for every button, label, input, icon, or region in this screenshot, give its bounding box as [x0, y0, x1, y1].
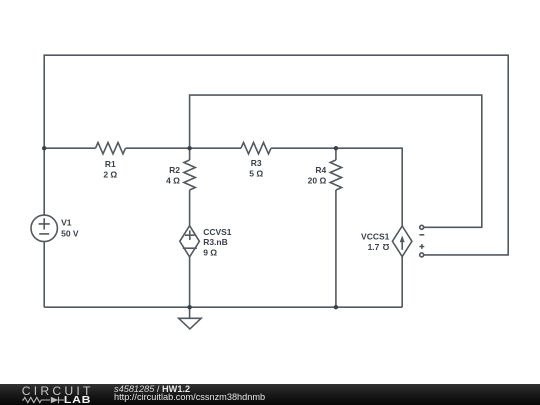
wire R2 branch: node B down to R2 [189, 148, 191, 160]
svg-text:1.7: 1.7 [368, 242, 380, 252]
wire CCVS1 bottom to bottom rail [189, 257, 191, 307]
voltage source V1 [31, 215, 57, 241]
terminal plus sign [419, 244, 424, 249]
CCVS U1 (CCVS1 diamond) [180, 226, 200, 257]
wire VCCS1 bottom to bottom rail corner [401, 257, 403, 308]
resistor R4 [330, 160, 341, 190]
wire R2 bottom to CCVS1 top [189, 190, 191, 226]
ground node junction dot [187, 305, 191, 309]
svg-text:LAB: LAB [64, 395, 91, 405]
svg-text:50 V: 50 V [61, 229, 79, 239]
wire R3 to node C and onward to VCCS corner [271, 148, 402, 226]
ground [179, 307, 201, 329]
CircuitLab logo [0, 384, 100, 405]
VCCS U2 (VCCS1 diamond) [392, 226, 412, 257]
wire R4 bottom to bottom rail [335, 190, 337, 307]
R4 bottom junction dot [334, 305, 338, 309]
resistor R1 [96, 143, 126, 154]
VCCS1 arrow head [400, 235, 405, 242]
svg-text:R2: R2 [169, 165, 180, 175]
svg-text:4 Ω: 4 Ω [166, 176, 180, 186]
footer bar [0, 384, 540, 405]
svg-text:9 Ω: 9 Ω [203, 247, 217, 257]
VCCS1 sense terminal top [420, 225, 424, 229]
svg-text:R4: R4 [315, 165, 326, 175]
wire node C down to R4 [335, 148, 337, 160]
wire outer loop top: left rail up, across top, down right side to bottom terminal [44, 55, 508, 255]
svg-text:V1: V1 [61, 217, 72, 227]
svg-text:R3.nB: R3.nB [203, 237, 228, 247]
resistor R3 [241, 143, 271, 154]
wire R1 to node B [126, 147, 190, 149]
VCCS1 sense terminal bottom [420, 253, 424, 257]
svg-text:Ω: Ω [382, 242, 389, 252]
svg-text:2 Ω: 2 Ω [103, 169, 117, 179]
node B junction dot [187, 146, 191, 150]
wire node B to R3 [190, 147, 241, 149]
wire V1 bottom to bottom rail [43, 242, 45, 308]
wire node A to R1 [44, 147, 95, 149]
svg-text:VCCS1: VCCS1 [361, 231, 390, 241]
svg-text:CCVS1: CCVS1 [203, 227, 232, 237]
svg-text:20 Ω: 20 Ω [308, 176, 327, 186]
wire left rail to V1 top [43, 148, 45, 215]
svg-text:5 Ω: 5 Ω [249, 168, 263, 178]
svg-text:R3: R3 [251, 158, 262, 168]
node C junction dot [334, 146, 338, 150]
node A junction dot [42, 146, 46, 150]
svg-text:R1: R1 [105, 159, 116, 169]
wire bottom rail [44, 306, 402, 308]
terminal minus sign [419, 234, 424, 236]
resistor R2 [184, 160, 195, 190]
wire inner loop: node B up, across, down to top terminal [190, 95, 482, 227]
